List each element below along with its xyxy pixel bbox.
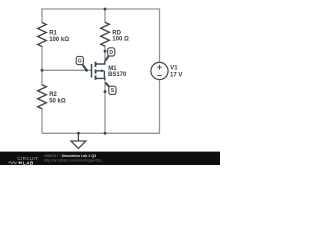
drain stub [96, 61, 105, 64]
channel bar segments [95, 62, 97, 67]
node flag S [105, 83, 116, 95]
node S attachment dot [104, 90, 107, 93]
svg-text:BS170: BS170 [108, 72, 127, 78]
svg-text:R1: R1 [49, 31, 57, 37]
resistor RD [101, 22, 110, 46]
node flag G [76, 56, 86, 70]
svg-text:50 kΩ: 50 kΩ [49, 99, 66, 105]
body arrow [101, 69, 105, 72]
minus sign [157, 75, 162, 77]
source stub [96, 78, 105, 80]
wire left branch upper (top rail to R1) [41, 8, 43, 23]
ground [71, 133, 86, 148]
node D attachment dot [104, 50, 107, 53]
wire bottom rail [42, 132, 160, 134]
watermark bar [0, 152, 220, 165]
wire R1 to gate junction [41, 46, 43, 70]
wire gate horizontal [42, 69, 91, 71]
voltage source V1 [151, 62, 168, 79]
resistor R1 [38, 23, 47, 47]
gate bar [91, 64, 93, 78]
wire gate junction to R2 [41, 70, 43, 85]
wire mosfet source to bottom rail [104, 79, 106, 133]
svg-text:D: D [109, 50, 113, 56]
plus sign [157, 65, 162, 70]
body stub [96, 71, 105, 79]
svg-text:V1: V1 [170, 66, 178, 72]
wire R2 to bottom rail [41, 108, 43, 133]
svg-text:http://circuitlab.com/c/xcnrlr: http://circuitlab.com/c/xcnrlrrgaxr62q [44, 158, 102, 162]
junction dot gate / left branch [41, 69, 44, 72]
svg-text:G: G [78, 58, 82, 64]
resistor R2 labels [49, 92, 66, 105]
wire V1 to bottom rail [159, 80, 161, 134]
wire top rail [42, 8, 160, 10]
junction dot top rail / RD [104, 8, 107, 11]
junction dot ground / bottom rail [77, 132, 80, 135]
node G attachment dot [85, 69, 88, 72]
svg-text:17 V: 17 V [170, 73, 182, 79]
resistor R1 labels [49, 31, 69, 44]
resistor RD labels [112, 30, 129, 42]
junction dot source / bottom rail [104, 132, 107, 135]
node flag D [105, 48, 114, 61]
resistor R2 [38, 85, 47, 109]
svg-text:LAB: LAB [23, 160, 34, 165]
svg-text:100 Ω: 100 Ω [112, 37, 129, 43]
svg-text:100 kΩ: 100 kΩ [49, 37, 69, 43]
circuitlab logo diode [19, 161, 22, 164]
transistor M1 (NMOS BS170) [92, 61, 105, 80]
voltage source V1 labels [170, 66, 182, 79]
svg-text:RD: RD [112, 30, 121, 36]
wire right branch upper (top rail to V1) [159, 8, 161, 62]
circuitlab logo zigzag [8, 162, 18, 164]
wire RD to mosfet drain [104, 45, 106, 62]
svg-text:R2: R2 [49, 92, 57, 98]
transistor M1 labels [108, 66, 127, 78]
wire RD branch upper (top rail to RD) [104, 8, 106, 23]
svg-text:M1: M1 [108, 66, 117, 72]
